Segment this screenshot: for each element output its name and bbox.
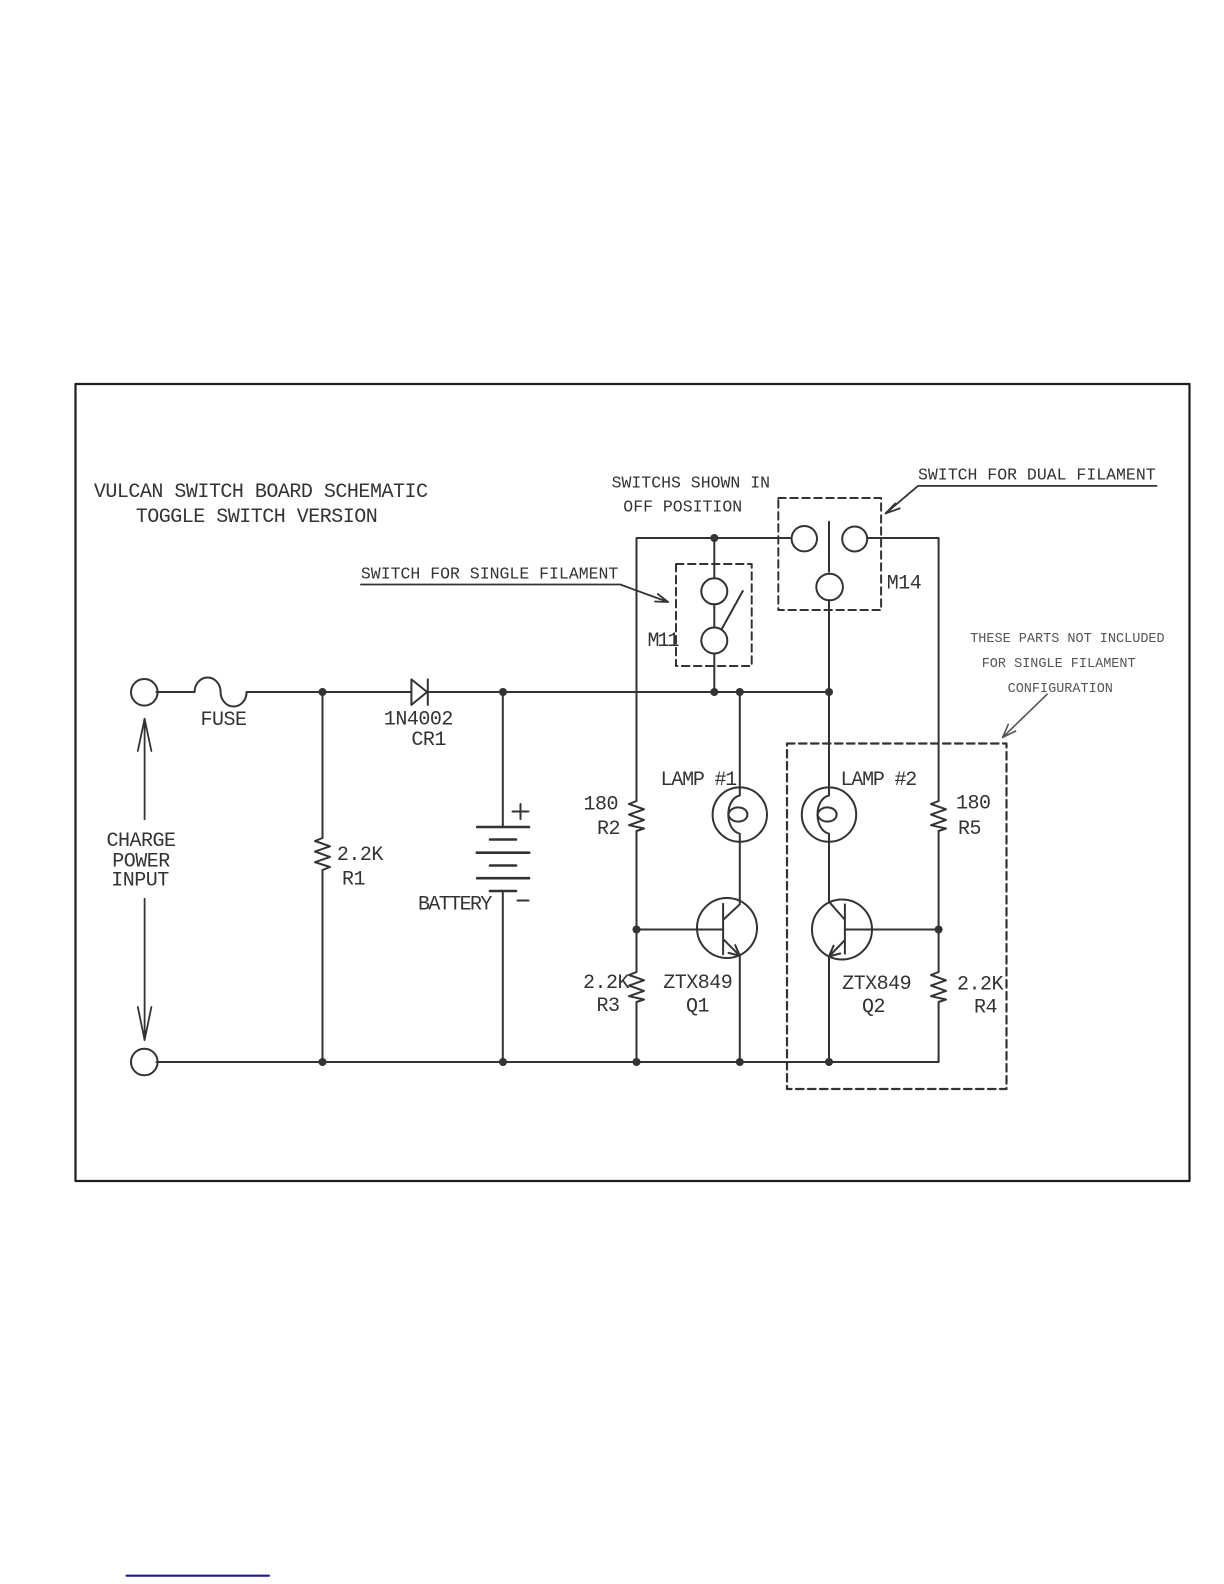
svg-text:R4: R4 xyxy=(974,997,997,1020)
transistor Q2 base bar xyxy=(844,904,846,953)
transistor Q2 emitter arrowhead xyxy=(829,946,840,957)
svg-text:M14: M14 xyxy=(887,573,922,596)
resistor R5 zigzag xyxy=(931,801,946,831)
switch M11 toggle lever xyxy=(722,591,743,630)
svg-text:TOGGLE SWITCH VERSION: TOGGLE SWITCH VERSION xyxy=(136,506,378,529)
terminal circle: charge input negative xyxy=(131,1049,158,1076)
svg-text:CONFIGURATION: CONFIGURATION xyxy=(1008,682,1113,697)
wire: Q2 base xyxy=(845,929,939,931)
svg-text:VULCAN SWITCH BOARD SCHEMATIC: VULCAN SWITCH BOARD SCHEMATIC xyxy=(94,481,428,504)
transistor Q1 envelope circle xyxy=(697,898,757,958)
svg-text:Q2: Q2 xyxy=(862,996,885,1019)
battery plate short 3 xyxy=(490,890,516,893)
charge input up arrow shaft xyxy=(144,719,146,819)
svg-text:LAMP #1: LAMP #1 xyxy=(661,769,738,792)
junction node: R2/R3/Q1 base xyxy=(633,926,641,934)
wire: top corner into R2 column xyxy=(637,538,792,801)
leader line with arrowhead to M14 xyxy=(886,486,1157,514)
battery plate short 2 xyxy=(490,864,516,867)
charge input down arrow shaft xyxy=(144,899,146,1040)
leader line with arrowhead to optional-parts dashed box xyxy=(1003,694,1048,737)
wire: fuse to diode xyxy=(247,691,412,693)
switch M14 right contact circle xyxy=(842,527,867,552)
junction node: bottom bus / Q1 emitter xyxy=(736,1058,744,1066)
switch M11 top contact circle xyxy=(701,578,727,604)
junction node: bottom bus / battery xyxy=(499,1058,507,1066)
battery plate long 3 xyxy=(477,877,529,880)
svg-text:M11: M11 xyxy=(648,630,680,653)
svg-text:INPUT: INPUT xyxy=(111,870,169,893)
fuse FUSE xyxy=(195,678,247,707)
diode CR1 (1N4002) xyxy=(411,679,427,705)
svg-text:THESE PARTS NOT INCLUDED: THESE PARTS NOT INCLUDED xyxy=(970,632,1164,647)
resistor R2 zigzag xyxy=(629,801,644,831)
switch M11 bottom contact circle xyxy=(701,628,727,654)
svg-text:180: 180 xyxy=(583,794,618,817)
wire: M14 bottom contact to main bus xyxy=(828,600,830,692)
resistor R3 zigzag xyxy=(629,972,644,1002)
wire: R2 to R3 segment xyxy=(636,831,638,972)
wire: R1 column lower xyxy=(322,870,324,1062)
svg-text:R3: R3 xyxy=(596,995,619,1018)
footer hyperlink underline xyxy=(127,1575,269,1577)
junction node: bus / R1 xyxy=(319,688,327,696)
switch M11 dashed outline box xyxy=(676,564,752,666)
junction node: bottom bus / R3 xyxy=(633,1058,641,1066)
wire: R4 to bottom bus xyxy=(938,1002,940,1062)
resistor R4 zigzag xyxy=(931,972,946,1002)
wire: top bus from diode to lamp2 column xyxy=(428,691,829,693)
switch M14 left contact circle xyxy=(792,526,817,551)
svg-text:R5: R5 xyxy=(958,818,981,841)
svg-text:R1: R1 xyxy=(342,869,366,892)
charge input down arrowhead xyxy=(138,1007,152,1040)
lamp LAMP#1 filament xyxy=(728,788,747,842)
svg-text:2.2K: 2.2K xyxy=(337,844,384,867)
wire: R5 to R4 segment xyxy=(938,831,940,972)
schematic border frame xyxy=(76,384,1190,1181)
svg-text:SWITCH FOR DUAL FILAMENT: SWITCH FOR DUAL FILAMENT xyxy=(918,466,1156,485)
lamp LAMP#2 filament xyxy=(818,788,837,842)
transistor Q1 emitter diagonal xyxy=(724,940,740,956)
svg-text:SWITCH FOR SINGLE FILAMENT: SWITCH FOR SINGLE FILAMENT xyxy=(361,565,619,584)
svg-text:ZTX849: ZTX849 xyxy=(663,972,732,995)
wire: R1 column upper xyxy=(322,692,324,838)
svg-text:FOR SINGLE FILAMENT: FOR SINGLE FILAMENT xyxy=(982,657,1136,672)
switch M14 dashed outline box xyxy=(778,498,881,610)
junction node: main bus / lamp2-M14 xyxy=(825,688,833,696)
lamp LAMP#1 bulb circle xyxy=(713,787,767,841)
battery plate short 1 xyxy=(490,838,516,841)
dashed box: parts not included for single filament xyxy=(787,744,1007,1090)
svg-text:R2: R2 xyxy=(597,818,620,841)
junction node: top bus / M11 branch xyxy=(710,534,718,542)
wire: Q1 base xyxy=(637,929,724,931)
svg-text:BATTERY: BATTERY xyxy=(418,894,492,917)
svg-text:2.2K: 2.2K xyxy=(957,974,1004,997)
junction node: bus / battery xyxy=(499,688,507,696)
switch M14 toggle lever xyxy=(828,522,830,572)
battery plus sign xyxy=(513,804,529,819)
wire: bus to lamp2 xyxy=(828,692,830,788)
svg-text:FUSE: FUSE xyxy=(201,709,247,732)
battery plate long 2 xyxy=(477,851,529,854)
wire: battery bottom lead xyxy=(502,891,504,1062)
svg-text:OFF POSITION: OFF POSITION xyxy=(623,498,742,517)
transistor Q2 emitter diagonal xyxy=(829,941,844,957)
wire: bus to lamp1 xyxy=(739,692,741,788)
transistor Q1 base bar xyxy=(722,904,724,954)
wire: Q1 emitter to bottom bus xyxy=(739,956,741,1062)
svg-text:CR1: CR1 xyxy=(411,729,446,752)
svg-text:ZTX849: ZTX849 xyxy=(842,973,911,996)
battery minus sign xyxy=(518,900,529,902)
wire: Q2 emitter to bottom bus xyxy=(828,956,830,1062)
wire: top bus to M11 top contact xyxy=(713,538,715,578)
transistor Q1 emitter arrowhead xyxy=(729,945,740,956)
junction node: R5/R4/Q2 base xyxy=(935,926,943,934)
wire: battery top lead xyxy=(502,692,504,827)
wire: lamp1 to Q1 collector with inner diagonal xyxy=(724,842,740,919)
leader line with arrowhead to M11 xyxy=(361,585,668,603)
svg-text:Q1: Q1 xyxy=(686,996,710,1019)
wire: bottom bus xyxy=(157,1061,939,1063)
svg-text:SWITCHS SHOWN IN: SWITCHS SHOWN IN xyxy=(612,474,770,493)
wire: M14 right contact to R5 column xyxy=(867,538,938,801)
charge input up arrowhead xyxy=(138,719,152,751)
svg-text:2.2K: 2.2K xyxy=(583,972,630,995)
wire: M11 bottom contact to main bus xyxy=(713,654,715,693)
junction node: bottom bus / Q2 emitter xyxy=(825,1058,833,1066)
wire: lamp2 to Q2 collector with inner diagonal xyxy=(829,842,844,919)
lamp LAMP#2 bulb circle xyxy=(802,787,856,841)
junction node: bottom bus / R1 xyxy=(319,1058,327,1066)
svg-text:180: 180 xyxy=(956,793,991,816)
wire: input terminal to fuse xyxy=(157,691,195,693)
resistor R1 zigzag xyxy=(315,838,330,870)
wire: R3 to bottom bus xyxy=(636,1002,638,1062)
transistor Q2 envelope circle xyxy=(812,900,872,960)
wire: between M11 contacts xyxy=(713,604,715,627)
junction node: main bus / lamp1 xyxy=(736,688,744,696)
battery plate long 1 xyxy=(477,826,529,829)
terminal circle: charge input positive xyxy=(131,679,158,706)
switch M14 bottom contact circle xyxy=(816,574,843,601)
junction node: main bus / M11 xyxy=(710,688,718,696)
svg-text:LAMP #2: LAMP #2 xyxy=(841,769,917,792)
